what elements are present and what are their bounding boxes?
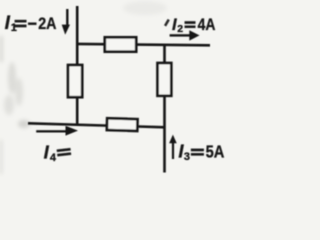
wire: bottom horizontal (I4 input stub to bottom-right node) <box>28 123 166 127</box>
wire: right vertical (top-right node down through right side, I3 stub below) <box>163 45 166 173</box>
smudge left streaks <box>8 62 16 94</box>
label I1 = -2A <box>5 13 57 34</box>
current arrow I4 (rightward, below bottom-left stub) <box>36 126 78 136</box>
wire: top horizontal (node A to I2 output stub) <box>76 44 210 45</box>
svg-text:5A: 5A <box>206 142 225 161</box>
svg-text:4A: 4A <box>198 16 216 35</box>
background paper <box>0 0 230 177</box>
resistor left <box>68 65 82 97</box>
current arrow I3 (upward, beside bottom-right stub) <box>169 135 177 159</box>
resistor bottom <box>107 118 138 131</box>
label I3 = 5A <box>178 141 224 163</box>
svg-text:I: I <box>44 142 50 163</box>
wire: left vertical branch (I1 input stub through left side down to bottom-left node) <box>76 6 79 125</box>
svg-text:3: 3 <box>184 151 190 163</box>
svg-text:I: I <box>5 13 11 34</box>
label I2 = 4A <box>164 16 215 35</box>
svg-text:4: 4 <box>50 152 57 164</box>
svg-text:2: 2 <box>177 23 183 35</box>
smudge left edge strips <box>0 36 3 62</box>
current arrow I2 (rightward, above top-right stub) <box>170 30 200 40</box>
resistor right <box>158 63 172 96</box>
resistor top <box>105 37 136 51</box>
svg-text:1: 1 <box>11 22 17 34</box>
smudge near bottom wire start <box>18 120 30 128</box>
smudge top middle <box>123 1 167 15</box>
svg-text:2A: 2A <box>38 15 56 33</box>
current arrow I1 (downward, beside top-left stub) <box>62 9 70 35</box>
label I4 = <box>44 142 71 165</box>
